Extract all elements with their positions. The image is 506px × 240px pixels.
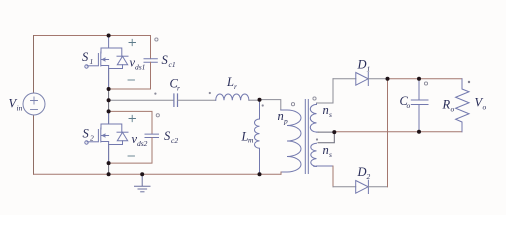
wire D1 anode stub [333,78,356,80]
svg-text:m: m [248,136,254,145]
svg-text:S: S [83,127,90,141]
capacitor Co [411,79,428,132]
wire Cr to Lr [178,99,216,101]
transformer core [305,100,308,174]
node marker at Lr left [209,92,211,94]
polarity mark secondary bottom [316,138,318,140]
svg-text:D: D [357,58,367,72]
minus mark vds2 [128,155,135,157]
label D1 [357,58,371,74]
svg-text:in: in [17,104,23,113]
wire left vertical from Vin top to top rail [33,36,35,94]
svg-text:D: D [357,165,367,179]
wire output bottom rail [334,131,462,133]
diode D2 [356,180,369,193]
capacitor Cr [174,94,178,106]
wire secondary top to D1 anode [317,79,334,103]
label np [278,109,289,126]
svg-text:n: n [278,109,284,123]
label vds2 [132,132,148,148]
inductor Lr [216,94,249,100]
label Lm [241,130,255,145]
svg-text:ds2: ds2 [137,139,148,148]
wire S2 source to bottom rail [108,145,110,175]
node marker o at Sc1 top [155,38,158,41]
wire D1 cathode to node [368,78,387,80]
inductor Lm magnetizing [255,100,260,175]
wire secondary bottom to D2 anode [332,166,334,187]
capacitor Sc2 plates [145,134,159,137]
capacitor Sc1 snubber branch [150,36,152,59]
node Sc1 bottom [107,87,111,91]
svg-text:2: 2 [367,172,371,181]
node Co bottom [417,130,421,134]
wire riser D2 to D1 node [387,79,389,187]
svg-text:c1: c1 [169,60,176,69]
node top rail / S1 drain [107,34,111,38]
polarity mark Vo plus [468,81,470,83]
label Vin [9,97,23,113]
wire center tap to output return [318,132,334,143]
svg-text:s: s [329,110,332,119]
transformer secondary winding ns bottom [311,143,333,166]
label ns top [323,103,333,119]
svg-text:L: L [226,75,234,89]
wire Sc2 bottom to S2 source [109,138,152,164]
label Co [400,94,411,110]
wire output top rail [388,78,463,80]
wire node A to primary top [260,100,281,110]
gate terminal circle S2 [85,141,88,144]
label Vo [475,96,487,112]
wire Sc1 bottom to midpoint [109,62,151,89]
resistor Ro load [456,79,469,132]
label S1 [82,50,93,66]
svg-text:o: o [451,105,455,114]
label S2 [83,127,95,143]
svg-text:ds1: ds1 [135,63,145,72]
svg-text:S: S [164,129,171,143]
node midpoint tank [107,98,111,102]
wire bottom rail [34,173,282,175]
wire left vertical from Vin bottom to bottom rail [33,115,35,174]
label Sc1 [162,53,176,69]
node marker at Cr left [154,93,156,95]
diode body D of S1 [109,48,128,69]
transformer primary winding np [281,110,301,172]
svg-text:o: o [483,103,487,112]
diode D1 [356,73,369,86]
svg-text:n: n [323,143,329,157]
wire midpoint to Cr [109,99,174,101]
plus mark vds1 [129,39,136,45]
node midpoint column wire [108,69,110,125]
polarity mark primary o [291,103,294,106]
svg-text:o: o [407,101,411,110]
label vds1 [130,56,146,72]
polarity mark secondary o [313,97,316,100]
node marker o at Co top [424,82,427,85]
label Cr [170,77,181,93]
label Ro [442,98,455,114]
node Co top [417,77,421,81]
transformer secondary winding ns top [310,103,318,132]
capacitor Sc1 plates [144,59,157,63]
ground [135,174,151,192]
wire midpoint to Sc2 top [109,111,152,133]
svg-text:1: 1 [367,65,371,74]
svg-text:1: 1 [90,57,94,66]
label ns bottom [323,143,333,159]
svg-text:R: R [442,98,451,112]
svg-text:s: s [329,150,332,159]
svg-text:2: 2 [90,134,94,143]
node A tank to Lm [258,98,262,102]
wire Lr to node A [249,99,260,101]
svg-text:S: S [162,53,169,67]
minus mark vds1 [128,79,135,81]
wire primary bottom to bottom rail [280,172,282,174]
gate terminal circle S1 [85,65,88,68]
label Sc2 [164,129,178,145]
node ground [140,172,144,176]
label Lr [226,75,237,91]
svg-text:n: n [323,103,329,117]
transistor Q2 switch S2 MOSFET [87,111,109,163]
svg-text:p: p [283,117,288,126]
label D2 [357,165,371,181]
svg-text:r: r [234,82,237,91]
diode body D of S2 [109,124,128,145]
wire D2 cathode to vertical riser [368,186,387,188]
node S2 source [107,161,111,165]
node marker o at Sc2 top [156,114,159,117]
node center tap [332,130,336,134]
plus mark vds2 [129,115,136,121]
node D1 cathode [386,77,390,81]
node Lm bottom [258,172,262,176]
wire top rail [34,35,151,37]
node Sc2 top [107,109,111,113]
node bottom rail left [107,172,111,176]
svg-text:S: S [82,50,89,64]
voltage source Vin [23,93,45,115]
svg-text:c2: c2 [171,136,178,145]
svg-text:r: r [177,84,180,93]
polarity mark Lm top [262,104,264,106]
transistor Q1 switch S1 MOSFET [87,36,109,90]
